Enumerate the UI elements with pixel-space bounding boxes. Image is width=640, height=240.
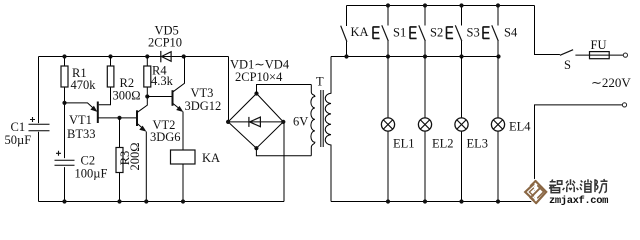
resistor R1 xyxy=(61,57,68,103)
svg-text:S2: S2 xyxy=(430,26,443,40)
node S4 bottom xyxy=(496,54,500,58)
svg-text:200Ω: 200Ω xyxy=(128,142,142,170)
wire bridge top to secondary xyxy=(257,85,312,94)
lamp EL1 xyxy=(381,57,394,202)
svg-text:300Ω: 300Ω xyxy=(113,88,141,102)
node R2 top xyxy=(108,54,112,58)
wire R1 bottom to C2 xyxy=(64,103,66,158)
wire left rail upper xyxy=(38,57,40,124)
watermark text zhimiao xiaofang xyxy=(549,179,607,193)
terminal L xyxy=(623,53,627,57)
svg-text:C2: C2 xyxy=(81,154,96,168)
wire mid bus right xyxy=(331,56,499,58)
node KA coil bottom xyxy=(181,199,185,203)
node R4 top xyxy=(145,54,149,58)
wire VT1 B1 to VT2 base xyxy=(98,117,136,119)
switch S4 xyxy=(483,6,498,57)
node EL3 bottom xyxy=(459,199,463,203)
resistor R3 xyxy=(116,118,123,202)
switch S3 xyxy=(447,6,462,57)
wire line N xyxy=(535,105,623,202)
transformer core xyxy=(321,90,323,147)
wire bottom rail right xyxy=(331,201,535,203)
node S2 top xyxy=(423,3,427,7)
svg-text:FU: FU xyxy=(591,38,607,52)
svg-text:KA: KA xyxy=(351,25,369,39)
node R3 top xyxy=(117,116,121,120)
fuse FU xyxy=(590,52,610,59)
wire bridge minus riser xyxy=(283,122,285,202)
svg-text:EL4: EL4 xyxy=(509,120,531,134)
transformer T primary winding xyxy=(325,57,331,202)
svg-text:S1: S1 xyxy=(393,26,406,40)
svg-text:100µF: 100µF xyxy=(75,167,108,181)
svg-text:KA: KA xyxy=(202,151,220,165)
node bridge top xyxy=(254,91,258,95)
node EL1 bottom xyxy=(386,199,390,203)
node bridge bottom xyxy=(254,146,258,150)
svg-text:EL2: EL2 xyxy=(432,137,454,151)
svg-text:VT1: VT1 xyxy=(69,113,92,127)
lamp EL4 xyxy=(491,57,504,202)
wire bottom rail left circuit xyxy=(39,201,285,203)
switch S1 xyxy=(373,6,388,57)
node VT2 emitter bottom xyxy=(144,199,148,203)
node S4 top xyxy=(496,3,500,7)
resistor R4 xyxy=(144,57,151,97)
svg-text:2CP10: 2CP10 xyxy=(148,36,182,50)
svg-text:S4: S4 xyxy=(504,26,518,40)
svg-text:S3: S3 xyxy=(467,26,480,40)
svg-text:T: T xyxy=(316,75,324,89)
node VT1 emitter xyxy=(62,101,66,105)
node bridge right xyxy=(281,120,285,124)
wire node to VT3 base xyxy=(147,96,171,98)
wire top bus right xyxy=(347,5,535,7)
node S3 bottom xyxy=(459,54,463,58)
node EL4 bottom xyxy=(496,199,500,203)
svg-text:VT3: VT3 xyxy=(191,86,214,100)
relay contact KA xyxy=(341,6,347,57)
relay coil KA xyxy=(171,150,196,202)
svg-text:6V: 6V xyxy=(293,115,308,129)
node VT3 collector top xyxy=(182,54,186,58)
svg-text:3DG6: 3DG6 xyxy=(150,130,181,144)
wire line L down from top bus xyxy=(535,6,560,55)
switch S2 xyxy=(410,6,425,57)
svg-text:S: S xyxy=(564,58,571,72)
node C2 bottom xyxy=(62,199,66,203)
lamp EL3 xyxy=(455,57,468,202)
svg-text:zmjaxf.com: zmjaxf.com xyxy=(549,195,608,207)
transformer T secondary winding xyxy=(311,85,315,156)
transistor VT3 xyxy=(173,57,185,151)
wire S to fuse to terminal xyxy=(575,54,623,56)
svg-text:470k: 470k xyxy=(71,78,97,92)
svg-text:BT33: BT33 xyxy=(67,127,95,141)
node S1 top xyxy=(386,3,390,7)
capacitor C1 xyxy=(29,117,50,131)
svg-text:EL3: EL3 xyxy=(467,137,489,151)
bridge rectifier VD1-VD4 xyxy=(228,94,283,149)
wire top rail left circuit xyxy=(39,56,229,58)
node R1 top xyxy=(62,54,66,58)
node KA bottom xyxy=(344,54,348,58)
transistor VT1 xyxy=(65,102,98,124)
wire bridge plus riser xyxy=(228,57,230,122)
wire left rail lower xyxy=(38,132,40,202)
node EL2 bottom xyxy=(423,199,427,203)
node S2 bottom xyxy=(423,54,427,58)
watermark logo diamond xyxy=(525,181,546,203)
node S1 bottom xyxy=(386,54,390,58)
svg-text:3DG12: 3DG12 xyxy=(185,99,222,113)
node R3 bottom xyxy=(117,199,121,203)
resistor R2 xyxy=(99,57,114,105)
lamp EL2 xyxy=(418,57,431,202)
switch S mains xyxy=(560,50,573,56)
node VT2 collector R4 xyxy=(145,94,149,98)
wire C2 to bottom rail xyxy=(64,167,66,201)
node S3 top xyxy=(459,3,463,7)
svg-text:C1: C1 xyxy=(11,120,26,134)
wire bridge bottom to secondary xyxy=(256,148,311,156)
terminal N xyxy=(622,103,626,107)
diode VD5 xyxy=(161,51,171,62)
svg-text:EL1: EL1 xyxy=(393,137,415,151)
capacitor C2 xyxy=(55,151,75,166)
transistor VT2 xyxy=(137,97,147,202)
svg-text:4.3k: 4.3k xyxy=(151,74,174,88)
svg-text:2CP10×4: 2CP10×4 xyxy=(235,70,283,84)
svg-text:50µF: 50µF xyxy=(5,133,32,147)
node bridge left xyxy=(226,120,230,124)
svg-text:∼220V: ∼220V xyxy=(591,75,631,90)
